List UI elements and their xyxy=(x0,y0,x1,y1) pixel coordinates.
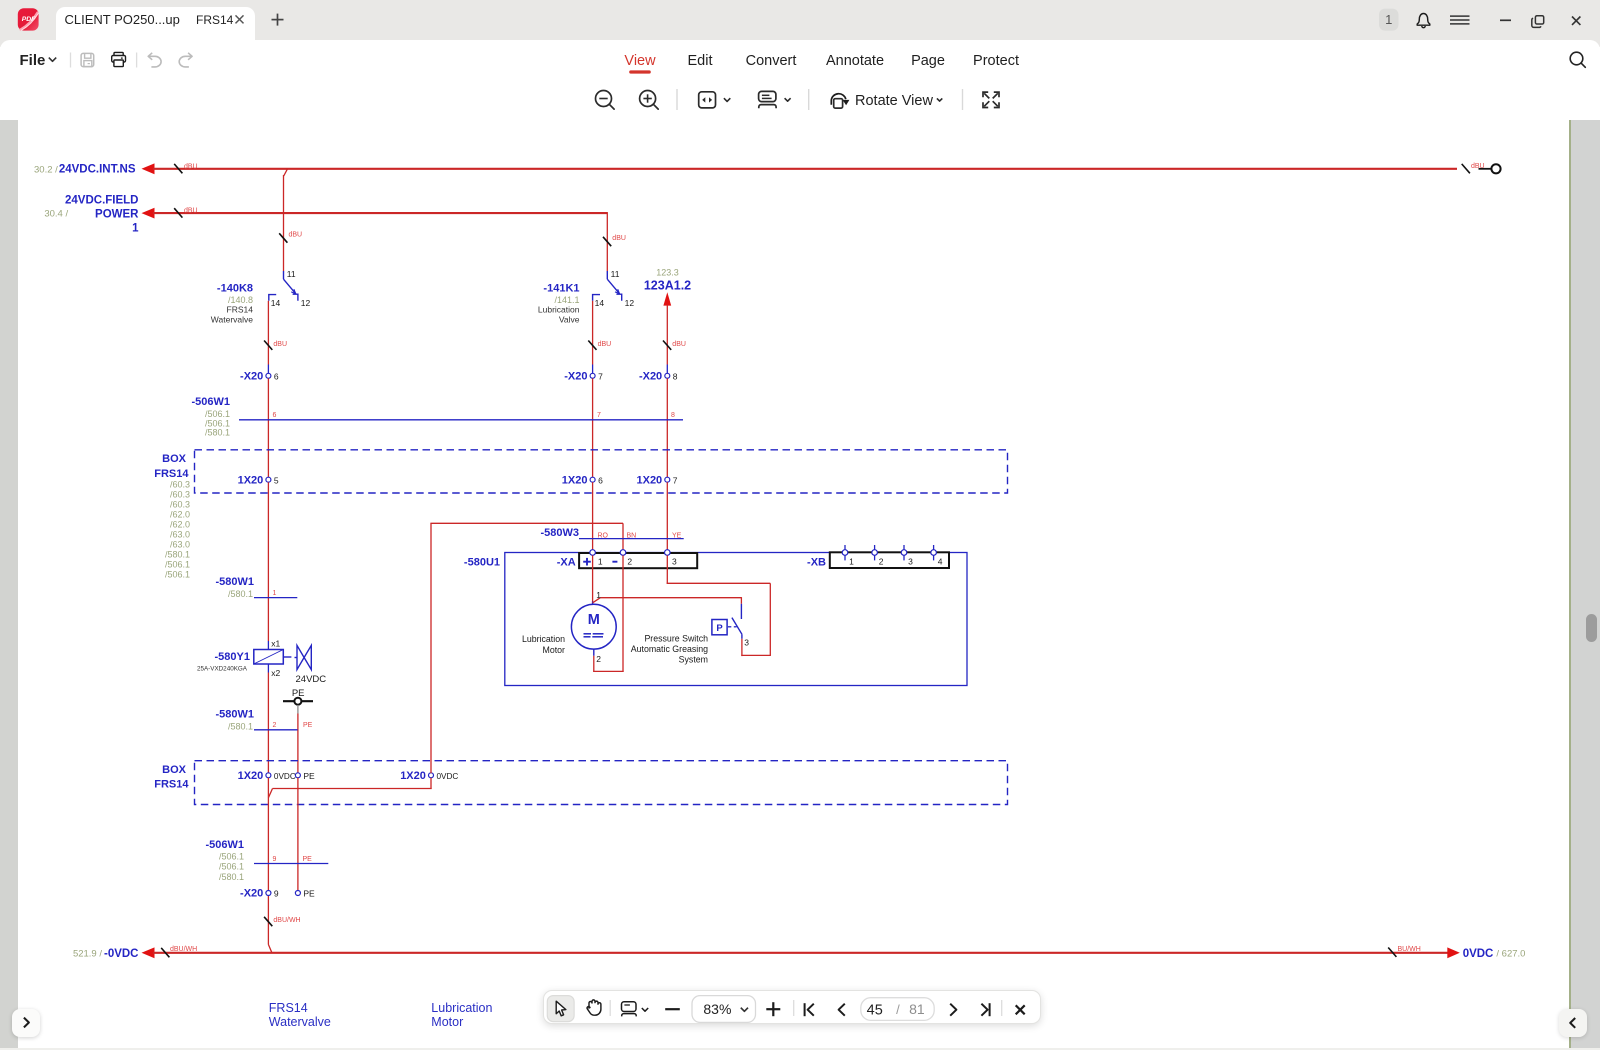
svg-text:/580.1: /580.1 xyxy=(165,550,190,560)
svg-text:12: 12 xyxy=(301,298,311,308)
svg-text:Motor: Motor xyxy=(543,645,566,655)
svg-text:1: 1 xyxy=(1385,12,1392,27)
svg-text:-XA: -XA xyxy=(557,556,576,568)
svg-text:/580.1: /580.1 xyxy=(219,872,244,882)
svg-text:7: 7 xyxy=(673,475,678,485)
svg-text:1: 1 xyxy=(132,222,139,234)
svg-text:6: 6 xyxy=(598,475,603,485)
svg-text:PE: PE xyxy=(303,771,315,781)
svg-text:1: 1 xyxy=(273,590,277,597)
svg-text:81: 81 xyxy=(909,1001,925,1017)
svg-text:3: 3 xyxy=(908,556,913,566)
svg-text:BU/WH: BU/WH xyxy=(1398,946,1421,953)
svg-text:-X20: -X20 xyxy=(564,370,587,382)
svg-text:/580.1: /580.1 xyxy=(228,589,253,599)
svg-text:/63.0: /63.0 xyxy=(170,530,190,540)
svg-text:Valve: Valve xyxy=(559,314,580,324)
svg-text:/506.1: /506.1 xyxy=(219,862,244,872)
svg-text:1: 1 xyxy=(849,556,854,566)
svg-text:24VDC.INT.NS: 24VDC.INT.NS xyxy=(59,164,136,176)
svg-text:1X20: 1X20 xyxy=(238,770,264,782)
svg-text:-141K1: -141K1 xyxy=(543,282,579,294)
svg-text:-X20: -X20 xyxy=(240,888,263,900)
svg-text:-580Y1: -580Y1 xyxy=(215,651,250,663)
svg-text:-X20: -X20 xyxy=(639,370,662,382)
svg-text:-506W1: -506W1 xyxy=(191,396,230,408)
svg-text:24VDC: 24VDC xyxy=(296,674,327,685)
svg-text:45: 45 xyxy=(867,1002,883,1018)
svg-text:M: M xyxy=(588,612,600,628)
svg-text:/60.3: /60.3 xyxy=(170,500,190,510)
svg-text:/580.1: /580.1 xyxy=(205,428,230,438)
svg-text:/60.3: /60.3 xyxy=(170,480,190,490)
svg-text:dBU: dBU xyxy=(289,232,303,239)
svg-text:30.4 /: 30.4 / xyxy=(44,209,68,220)
svg-text:PE: PE xyxy=(303,856,313,863)
svg-text:7: 7 xyxy=(597,412,601,419)
svg-text:FRS14: FRS14 xyxy=(154,468,189,480)
svg-text:BOX: BOX xyxy=(162,764,187,776)
svg-text:11: 11 xyxy=(287,269,296,279)
svg-text:3: 3 xyxy=(744,638,749,648)
svg-text:Watervalve: Watervalve xyxy=(211,314,253,324)
svg-text:-580U1: -580U1 xyxy=(464,556,500,568)
svg-text:dBU: dBU xyxy=(672,341,686,348)
svg-text:-140K8: -140K8 xyxy=(217,282,253,294)
svg-text:/506.1: /506.1 xyxy=(165,560,190,570)
svg-text:YE: YE xyxy=(672,532,682,539)
svg-text:-580W1: -580W1 xyxy=(215,708,254,720)
svg-text:8: 8 xyxy=(673,371,678,381)
svg-text:FRS14: FRS14 xyxy=(154,778,189,790)
svg-text:1X20: 1X20 xyxy=(562,474,588,486)
svg-text:dBU: dBU xyxy=(184,208,198,215)
svg-text:2: 2 xyxy=(596,654,601,664)
svg-text:PDF: PDF xyxy=(22,16,36,23)
svg-text:1X20: 1X20 xyxy=(400,770,426,782)
svg-text:FRS14: FRS14 xyxy=(227,305,254,315)
svg-text:/62.0: /62.0 xyxy=(170,520,190,530)
svg-text:1: 1 xyxy=(596,590,601,600)
svg-text:Pressure Switch: Pressure Switch xyxy=(644,634,708,644)
svg-text:2: 2 xyxy=(273,722,277,729)
svg-text:7: 7 xyxy=(598,371,603,381)
svg-text:30.2 /: 30.2 / xyxy=(34,164,58,175)
svg-text:/60.3: /60.3 xyxy=(170,490,190,500)
svg-text:/ 627.0: / 627.0 xyxy=(1496,948,1525,959)
svg-text:6: 6 xyxy=(274,371,279,381)
svg-text:5: 5 xyxy=(274,475,279,485)
svg-text:/62.0: /62.0 xyxy=(170,510,190,520)
svg-text:dBU/WH: dBU/WH xyxy=(170,946,197,953)
svg-text:2: 2 xyxy=(627,556,632,566)
svg-text:/506.1: /506.1 xyxy=(165,570,190,580)
svg-text:1X20: 1X20 xyxy=(636,474,662,486)
svg-text:/: / xyxy=(896,1002,900,1017)
svg-text:dBU: dBU xyxy=(273,341,287,348)
svg-text:-XB: -XB xyxy=(807,556,826,568)
svg-text:-580W1: -580W1 xyxy=(215,576,254,588)
svg-text:123.3: 123.3 xyxy=(656,268,679,278)
svg-text:14: 14 xyxy=(271,298,281,308)
svg-text:0VDC: 0VDC xyxy=(1463,948,1494,960)
svg-text:14: 14 xyxy=(595,298,605,308)
svg-text:11: 11 xyxy=(611,269,620,279)
svg-text:0VDC: 0VDC xyxy=(437,772,459,781)
svg-text:123A1.2: 123A1.2 xyxy=(644,278,691,292)
svg-text:4: 4 xyxy=(938,556,943,566)
svg-text:-506W1: -506W1 xyxy=(205,839,244,851)
svg-text:83%: 83% xyxy=(703,1001,731,1017)
svg-text:521.9 /: 521.9 / xyxy=(73,948,102,959)
svg-text:Automatic Greasing: Automatic Greasing xyxy=(631,644,708,654)
svg-text:System: System xyxy=(679,655,708,665)
svg-text:3: 3 xyxy=(672,556,677,566)
svg-text:x1: x1 xyxy=(271,638,280,648)
svg-text:0VDC: 0VDC xyxy=(274,772,296,781)
svg-text:9: 9 xyxy=(273,856,277,863)
svg-text:POWER: POWER xyxy=(95,208,139,220)
svg-text:12: 12 xyxy=(625,298,635,308)
svg-text:Lubrication: Lubrication xyxy=(522,634,565,644)
svg-text:RO: RO xyxy=(598,532,609,539)
svg-text:1: 1 xyxy=(598,556,603,566)
svg-text:dBU: dBU xyxy=(184,163,198,170)
svg-text:PE: PE xyxy=(303,722,313,729)
svg-text:6: 6 xyxy=(273,412,277,419)
svg-text:/580.1: /580.1 xyxy=(228,721,253,731)
svg-text:-0VDC: -0VDC xyxy=(104,948,139,960)
svg-text:PE: PE xyxy=(303,889,315,899)
svg-text:1X20: 1X20 xyxy=(238,474,264,486)
svg-text:dBU: dBU xyxy=(598,341,612,348)
svg-text:dBU: dBU xyxy=(612,235,626,242)
svg-text:P: P xyxy=(716,623,723,634)
svg-text:dBU/WH: dBU/WH xyxy=(273,917,300,924)
svg-text:/506.1: /506.1 xyxy=(219,851,244,861)
svg-text:-X20: -X20 xyxy=(240,370,263,382)
svg-text:BN: BN xyxy=(627,532,637,539)
svg-text:24VDC.FIELD: 24VDC.FIELD xyxy=(65,194,139,206)
svg-text:25A-VXD240KGA: 25A-VXD240KGA xyxy=(197,666,248,673)
svg-text:x2: x2 xyxy=(271,668,280,678)
svg-text:8: 8 xyxy=(671,412,675,419)
svg-text:2: 2 xyxy=(879,556,884,566)
svg-text:9: 9 xyxy=(274,889,279,899)
svg-text:Lubrication: Lubrication xyxy=(538,305,580,315)
svg-text:BOX: BOX xyxy=(162,453,187,465)
svg-text:-580W3: -580W3 xyxy=(540,527,579,539)
svg-text:/63.0: /63.0 xyxy=(170,540,190,550)
